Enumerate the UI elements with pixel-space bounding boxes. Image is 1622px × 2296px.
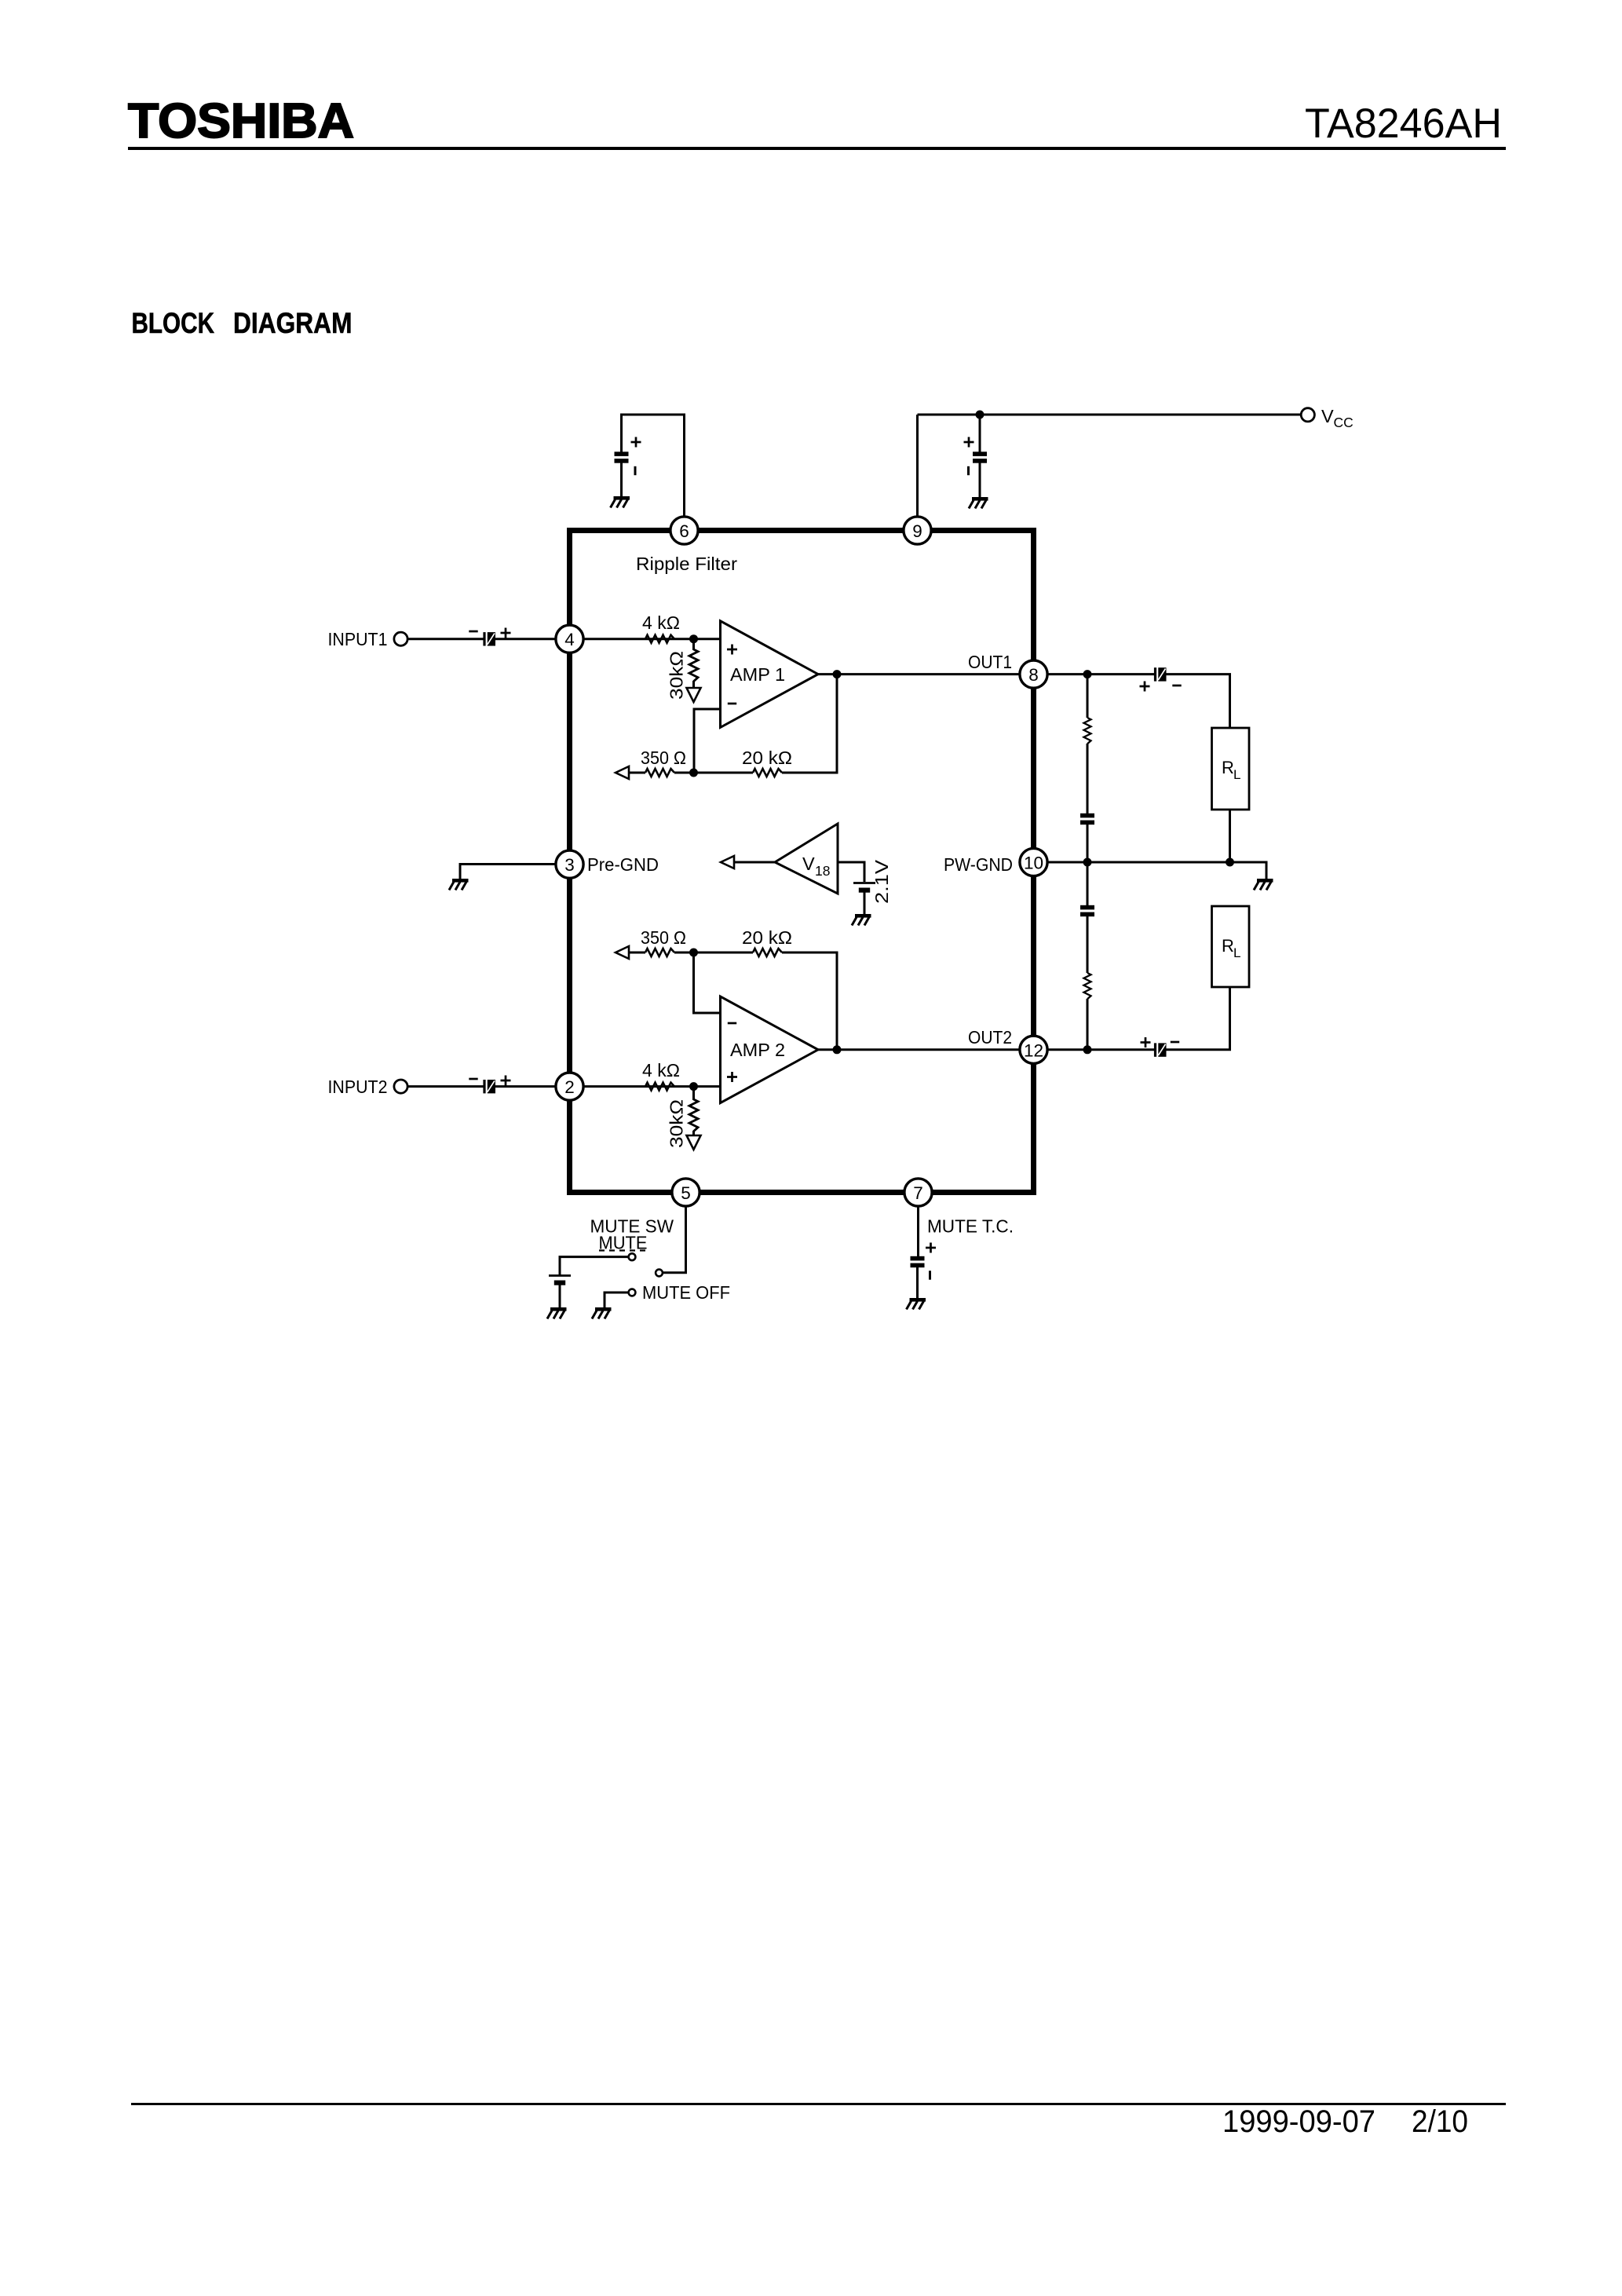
wire: arrow to V18 — [734, 861, 776, 864]
svg-text:30kΩ: 30kΩ — [667, 651, 687, 700]
resistor (snubber B) — [1084, 973, 1091, 999]
svg-text:AMP 1: AMP 1 — [730, 664, 785, 685]
wire: INPUT1 to coupling cap — [408, 638, 484, 640]
svg-text:2/10: 2/10 — [1412, 2104, 1468, 2139]
svg-text:MUTE T.C.: MUTE T.C. — [927, 1216, 1014, 1237]
pin 9 — [904, 517, 931, 544]
svg-text:V: V — [1321, 406, 1334, 426]
svg-text:L: L — [1233, 767, 1240, 782]
junction snubber A on PW-GND — [1083, 858, 1092, 867]
wire: 350 to 20k — [674, 772, 753, 774]
resistor 20 kOhm (amp2 feedback) — [753, 949, 782, 956]
svg-text:AMP 2: AMP 2 — [730, 1040, 785, 1060]
capacitor (mute time constant) — [911, 1256, 925, 1267]
resistor 20 kOhm (amp1 feedback) — [753, 769, 782, 777]
wire: INPUT2 to coupling cap — [408, 1085, 484, 1088]
svg-text:9: 9 — [912, 521, 922, 541]
label + of input2 cap — [501, 1076, 511, 1086]
wire: C6 to ground — [620, 462, 623, 496]
capacitor (input 2 coupling) — [483, 1080, 495, 1093]
wire: 350 to 20k (amp2) — [674, 952, 753, 954]
wire: AMP1 - input feedback — [694, 709, 721, 773]
pin 8 — [1020, 660, 1047, 688]
wire: PW-GND rail — [1048, 862, 1267, 879]
svg-text:30kΩ: 30kΩ — [667, 1099, 687, 1148]
svg-text:3: 3 — [564, 855, 575, 875]
svg-text:20 kΩ: 20 kΩ — [742, 748, 792, 768]
wire: AMP2 - input feedback — [694, 952, 721, 1013]
wire: MUTE OFF contact to ground — [605, 1292, 628, 1307]
resistor 350 Ohm (amp1 feedback) — [645, 769, 674, 777]
resistor 350 Ohm (amp2 feedback) — [645, 949, 674, 956]
wire: AMP2 output to pin 12 — [818, 1048, 1034, 1051]
load resistor RL2 — [1212, 906, 1250, 987]
wire: snubber B mid — [1087, 916, 1089, 973]
svg-text:6: 6 — [679, 521, 689, 541]
label - input of AMP2 — [728, 1022, 736, 1024]
wire: RL1 to PW-GND rail — [1229, 810, 1231, 862]
svg-text:4: 4 — [564, 630, 575, 649]
wire: 30k to arrow — [692, 681, 695, 688]
wire: pin 12 to output cap — [1034, 1048, 1156, 1051]
capacitor C6 (ripple filter cap at pin 6) — [615, 452, 629, 462]
label - of mute cap — [930, 1270, 931, 1279]
wire: pin 4 to AMP1 + input — [584, 638, 721, 640]
label - of out1 cap — [1172, 685, 1181, 686]
wire: pin 3 to ground — [460, 865, 556, 879]
label - of C9 — [968, 466, 970, 475]
svg-text:Pre-GND: Pre-GND — [587, 854, 659, 875]
arrow to internal reference (amp2 30k) — [687, 1135, 701, 1150]
arrow to internal common (amp2 350) — [616, 946, 629, 959]
label + of input1 cap — [501, 628, 511, 638]
svg-text:PW-GND: PW-GND — [944, 854, 1013, 875]
wire: snubber B to out2 — [1087, 999, 1089, 1050]
svg-text:8: 8 — [1028, 665, 1039, 685]
wire: battery to ground — [559, 1285, 561, 1308]
ground (C6) — [611, 496, 630, 508]
svg-text:4 kΩ: 4 kΩ — [642, 1060, 680, 1080]
svg-text:DIAGRAM: DIAGRAM — [233, 307, 353, 339]
svg-text:5: 5 — [681, 1183, 691, 1203]
svg-text:OUT1: OUT1 — [968, 652, 1012, 672]
arrow from V18 reference — [721, 856, 734, 868]
wire: arrow to 350 — [629, 772, 645, 774]
ground (mute off) — [592, 1307, 612, 1319]
wire: snubber chain B down — [1087, 862, 1089, 905]
junction on Vcc rail — [976, 411, 985, 419]
battery 2.1V reference — [853, 883, 875, 893]
svg-text:2.1V: 2.1V — [871, 860, 892, 904]
battery (mute bias) — [549, 1276, 571, 1285]
junction below pin 12 wire — [1083, 1045, 1092, 1054]
junction below pin 8 wire — [1083, 670, 1092, 678]
ground (Pre-GND) — [449, 879, 469, 890]
terminal INPUT1 — [394, 632, 407, 645]
IC block boundary TA8246AH — [570, 531, 1034, 1193]
load resistor RL1 — [1212, 728, 1250, 810]
switch MUTE OFF contact — [629, 1289, 636, 1296]
label + input of AMP2 — [727, 1072, 737, 1082]
wire: V18 to battery — [838, 862, 864, 882]
label - input of AMP1 — [728, 703, 736, 704]
wire: snubber A to PW-GND — [1087, 824, 1089, 862]
wire: out2 cap to RL2 — [1166, 987, 1230, 1050]
svg-text:2: 2 — [564, 1077, 575, 1097]
pin 3 — [556, 850, 583, 878]
wire: snubber chain A down — [1087, 675, 1089, 718]
svg-text:R: R — [1222, 936, 1234, 956]
svg-text:7: 7 — [913, 1183, 923, 1203]
switch MUTE contact — [629, 1253, 636, 1260]
buffer amp V18 — [775, 824, 838, 894]
wire: junction down to 30k (amp2) — [692, 1087, 695, 1100]
arrow to internal reference (amp1 30k) — [687, 688, 701, 702]
wire: Vcc rail horizontal — [918, 414, 1301, 416]
svg-text:V: V — [802, 854, 815, 874]
arrow to internal common (amp1 350) — [616, 766, 629, 779]
resistor 30kOhm (amp1 bias) — [689, 649, 698, 682]
svg-text:20 kΩ: 20 kΩ — [742, 927, 792, 948]
svg-text:TA8246AH: TA8246AH — [1305, 101, 1502, 147]
wire: top jog to capacitor C6 — [620, 414, 685, 416]
wire: cap to ground — [916, 1267, 919, 1298]
resistor (snubber A) — [1084, 718, 1091, 744]
capacitor (out1 coupling) — [1154, 667, 1167, 681]
pin 5 — [672, 1179, 700, 1206]
pin 10 — [1020, 848, 1047, 876]
pin 6 — [670, 517, 698, 544]
resistor 4 kOhm (amp2 input) — [645, 1083, 674, 1091]
svg-text:1999-09-07: 1999-09-07 — [1222, 2104, 1375, 2139]
capacitor (out2 coupling) — [1154, 1043, 1167, 1056]
wire: battery to ground — [864, 893, 866, 915]
label + of mute cap — [926, 1243, 936, 1253]
wire: C9 to ground — [979, 462, 981, 497]
wire: cap to pin 2 — [495, 1085, 556, 1088]
junction at AMP2 output — [833, 1045, 842, 1054]
op-amp AMP 2 — [721, 996, 819, 1103]
underline of MUTE — [599, 1249, 648, 1251]
wire: snubber A mid — [1087, 744, 1089, 813]
junction RL on PW-GND — [1226, 858, 1234, 867]
label + input of AMP1 — [727, 645, 737, 655]
svg-text:350 Ω: 350 Ω — [641, 748, 686, 768]
wire: AMP1 output to pin 8 — [818, 673, 1034, 675]
wire: MUTE contact to battery — [560, 1257, 628, 1275]
label - of input2 cap — [469, 1078, 477, 1080]
ground (mute battery) — [547, 1307, 567, 1319]
resistor 30kOhm (amp2 bias) — [689, 1099, 698, 1132]
svg-text:Ripple Filter: Ripple Filter — [636, 554, 737, 574]
svg-text:350 Ω: 350 Ω — [641, 927, 686, 948]
svg-text:INPUT2: INPUT2 — [328, 1077, 388, 1097]
svg-text:BLOCK: BLOCK — [132, 307, 215, 339]
terminal Vcc — [1301, 408, 1314, 422]
junction at AMP1 output — [833, 670, 842, 678]
wire: down to capacitor C6 — [620, 415, 623, 452]
wire: arrow to 350 (amp2) — [629, 952, 645, 954]
svg-text:12: 12 — [1024, 1040, 1043, 1060]
pin 12 — [1020, 1036, 1047, 1063]
svg-text:INPUT1: INPUT1 — [328, 629, 388, 649]
capacitor (snubber B) — [1080, 905, 1094, 916]
label - of out2 cap — [1171, 1041, 1179, 1043]
svg-text:R: R — [1222, 758, 1234, 777]
op-amp AMP 1 — [721, 621, 819, 728]
junction at amp2 + input — [689, 1082, 698, 1091]
wire: pin 6 up — [683, 415, 685, 531]
header rule — [128, 147, 1506, 150]
footer rule — [131, 2103, 1506, 2105]
label - of input1 cap — [469, 631, 477, 632]
wire: junction down to 30k — [692, 639, 695, 650]
resistor 4 kOhm (amp1 input) — [645, 635, 674, 643]
wire: pin 8 to output cap — [1034, 673, 1156, 675]
wire: 20k down to AMP2 output — [782, 952, 837, 1050]
svg-text:OUT2: OUT2 — [968, 1027, 1012, 1047]
svg-text:L: L — [1233, 945, 1240, 960]
svg-text:18: 18 — [815, 863, 830, 879]
svg-text:TOSHIBA: TOSHIBA — [128, 93, 354, 148]
junction feedback node amp1 — [689, 769, 698, 777]
wire: cap to pin 4 — [495, 638, 556, 640]
junction at amp1 + input — [689, 634, 698, 643]
wire: pin 9 up to Vcc rail — [916, 415, 919, 531]
ground (PW-GND) — [1254, 879, 1273, 890]
wire: 20k up to AMP1 output — [782, 675, 837, 773]
switch common contact — [656, 1270, 663, 1277]
ground (mute t.c.) — [907, 1298, 926, 1310]
label + of C9 — [964, 437, 974, 448]
svg-text:10: 10 — [1024, 854, 1043, 873]
label + of C6 — [631, 437, 641, 448]
pin 7 — [904, 1179, 932, 1206]
label + of out2 cap — [1141, 1037, 1151, 1047]
label - of C6 — [634, 466, 636, 475]
wire: pin 5 down to mute switch — [663, 1207, 686, 1273]
wire: pin 2 to AMP2 + input — [584, 1085, 721, 1088]
label + of out1 cap — [1140, 682, 1150, 692]
capacitor (snubber A) — [1080, 813, 1094, 824]
terminal INPUT2 — [394, 1080, 407, 1093]
capacitor (input 1 coupling) — [483, 632, 495, 645]
svg-text:CC: CC — [1334, 415, 1353, 430]
wire: pin 7 down to cap — [917, 1207, 919, 1258]
svg-text:MUTE OFF: MUTE OFF — [642, 1282, 730, 1303]
wire: junction down to capacitor C9 — [979, 415, 981, 452]
pin 4 — [556, 625, 583, 653]
wire: out1 cap to RL1 — [1166, 675, 1230, 728]
pin 2 — [556, 1073, 583, 1100]
wire: 30k to arrow (amp2) — [692, 1131, 695, 1136]
junction feedback node amp2 — [689, 949, 698, 957]
capacitor C9 (ripple cap at pin 9) — [973, 452, 987, 462]
ground (2.1V ref) — [852, 914, 871, 926]
svg-text:4 kΩ: 4 kΩ — [642, 612, 680, 633]
ground (C9) — [969, 497, 988, 509]
